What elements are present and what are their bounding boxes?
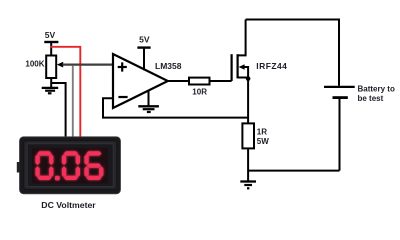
op-amp U1 LM358 triangle bbox=[113, 54, 168, 108]
transistor Q1 source stub bbox=[238, 77, 249, 79]
wire bottom return to battery bbox=[248, 170, 339, 172]
DC voltmeter module body bbox=[17, 137, 121, 194]
wire drain to battery positive bbox=[246, 20, 339, 86]
wire 1R bottom to ground and battery return bbox=[247, 148, 249, 181]
wire 5V bar to potentiometer top bbox=[50, 42, 52, 56]
wire 10R to MOSFET gate bbox=[210, 80, 232, 82]
svg-text:5W: 5W bbox=[257, 137, 269, 146]
ground symbol (op-amp) bbox=[138, 106, 159, 112]
svg-text:LM358: LM358 bbox=[155, 61, 182, 71]
transistor Q1 body arrow bbox=[243, 67, 248, 78]
op-amp plus input marking bbox=[118, 62, 127, 71]
voltmeter digits 0.06 bbox=[35, 151, 103, 180]
transistor Q1 channel bar bbox=[237, 54, 239, 78]
svg-text:IRFZ44: IRFZ44 bbox=[256, 61, 287, 71]
wire feedback: inverting input to 1R/source node bbox=[103, 98, 248, 117]
resistor R2 10R body bbox=[189, 78, 210, 85]
junction dot source/body bbox=[246, 76, 251, 81]
svg-text:DC Voltmeter: DC Voltmeter bbox=[41, 200, 96, 210]
op-amp minus input marking bbox=[118, 96, 127, 98]
wire (red) from 5V rail to voltmeter supply bbox=[50, 47, 80, 139]
wire wiper to op-amp non-inverting input bbox=[63, 63, 114, 65]
transistor Q1 drain stub bbox=[238, 20, 246, 56]
wire source node down to 1R bbox=[247, 78, 249, 124]
power rail bar (left 5V) bbox=[44, 41, 58, 43]
resistor R3 1R 5W body bbox=[242, 123, 254, 148]
svg-text:100K: 100K bbox=[25, 60, 44, 69]
wire op-amp output to 10R bbox=[167, 80, 189, 82]
potentiometer R1 100K body bbox=[46, 56, 56, 79]
svg-text:1R: 1R bbox=[257, 128, 267, 137]
svg-text:be test: be test bbox=[358, 94, 384, 103]
battery BT1 positive plate bbox=[324, 86, 355, 88]
ground symbol (bottom) bbox=[240, 182, 256, 189]
transistor Q1 IRFZ44 gate bar bbox=[231, 54, 233, 81]
svg-text:5V: 5V bbox=[139, 35, 150, 45]
wire battery negative down bbox=[339, 98, 341, 171]
wire potentiometer bottom to ground bbox=[50, 78, 52, 88]
battery BT1 negative plate bbox=[333, 96, 348, 99]
wire (black) ground branch to voltmeter negative bbox=[51, 83, 65, 139]
wire (gray) sense line from wiper node to voltmeter bbox=[72, 66, 74, 139]
svg-text:10R: 10R bbox=[192, 87, 207, 96]
potentiometer wiper arrow bbox=[57, 62, 63, 68]
ground symbol (potentiometer) bbox=[42, 88, 59, 93]
power rail bar (op-amp 5V) bbox=[137, 46, 150, 48]
svg-text:5V: 5V bbox=[45, 30, 56, 40]
wire op-amp V+ pin bbox=[143, 48, 145, 71]
voltmeter display window bbox=[32, 148, 108, 184]
wire op-amp V- pin to ground bbox=[148, 91, 150, 106]
svg-text:Battery to: Battery to bbox=[358, 85, 395, 94]
